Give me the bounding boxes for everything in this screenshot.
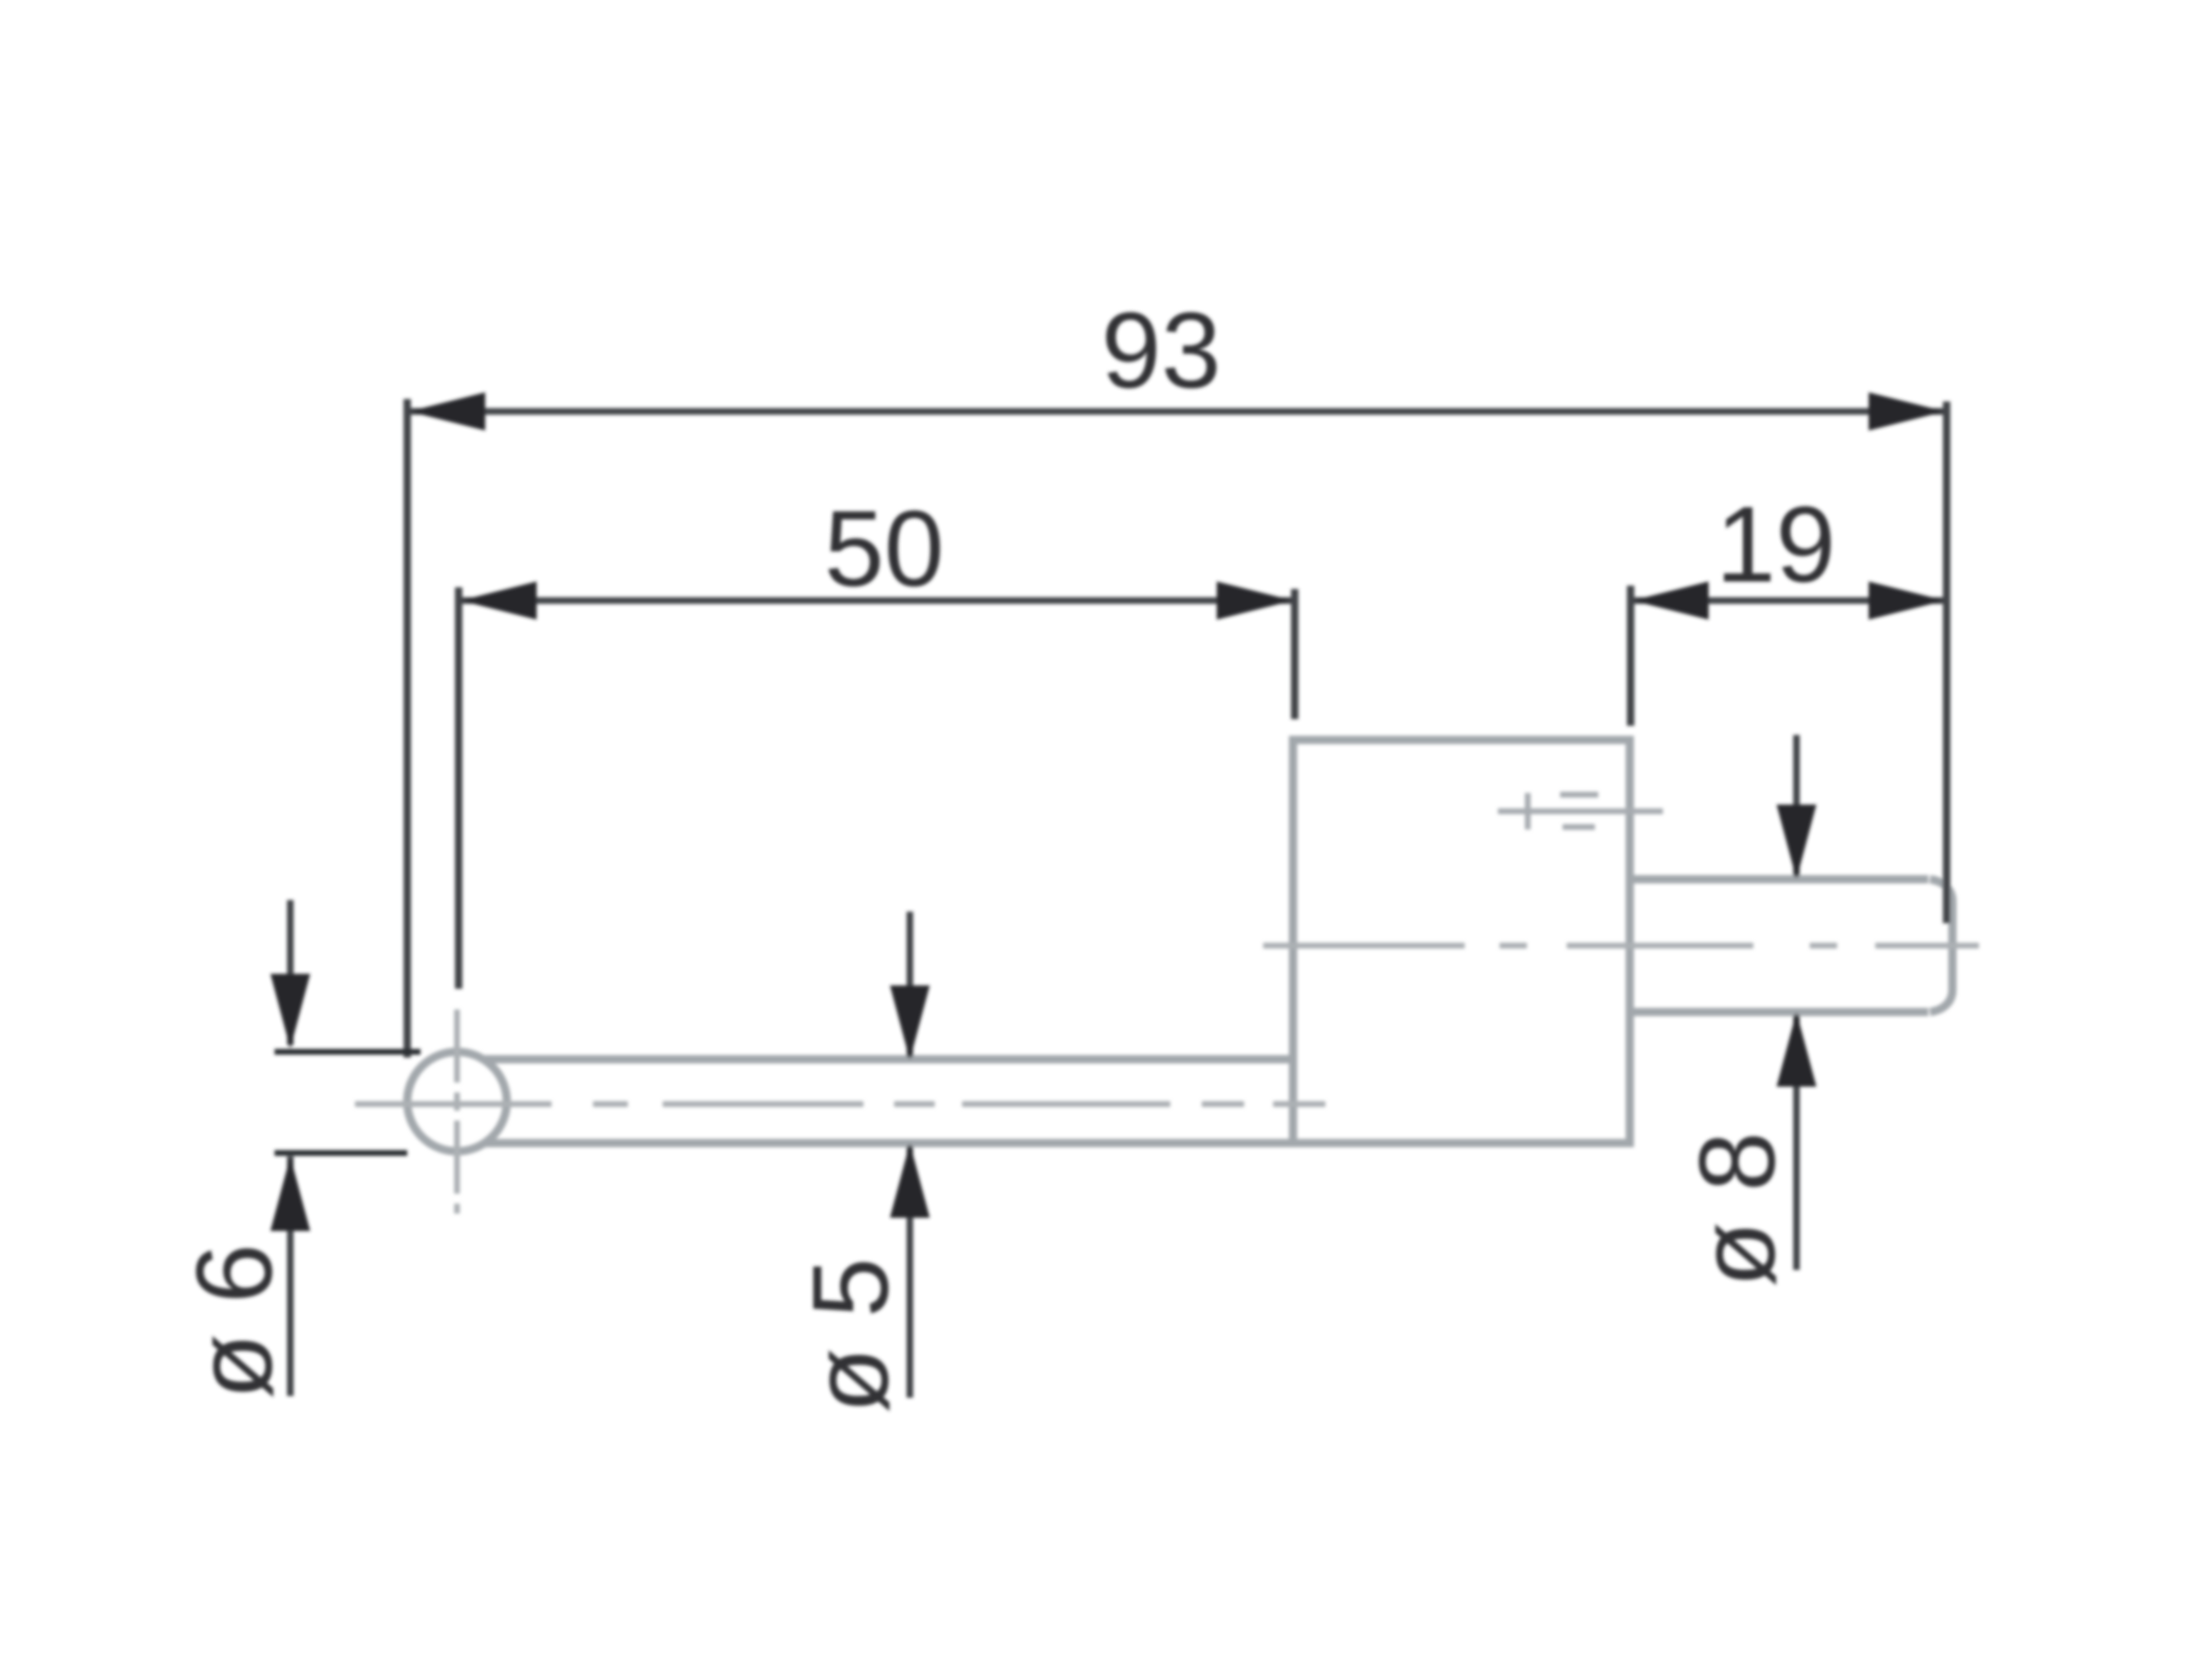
dimension 50: line — [459, 597, 1295, 604]
svg-text:ø 5: ø 5 — [790, 1258, 911, 1413]
svg-text:19: 19 — [1716, 484, 1836, 605]
mounting pin o8 with domed end (gray outline) — [1630, 879, 1952, 1012]
dimension 19: line — [1631, 597, 1947, 604]
dimension 50: right arrowhead — [1217, 581, 1293, 620]
dimension 93: line — [407, 408, 1947, 415]
dimension o6: upper leader line with down arrowhead — [287, 900, 294, 1045]
dimension o6: lower tick — [275, 1151, 407, 1156]
dimension 93: left extension line — [404, 399, 411, 1058]
svg-text:ø 6: ø 6 — [173, 1243, 294, 1399]
stylus rod o5 (gray outline) — [484, 1059, 1293, 1143]
dimension o6: upper tick — [275, 1049, 421, 1055]
svg-text:93: 93 — [1101, 289, 1222, 411]
dimension o5: lower leader line with up arrowhead — [907, 1146, 913, 1398]
rod centerline (dash-dot) — [355, 1102, 1325, 1107]
dimension 50: left extension line — [455, 587, 463, 989]
dimension 19: right arrowhead — [1869, 581, 1945, 620]
dimension o8: upper leader line with down arrowhead — [1793, 735, 1800, 876]
clamp mark symbol inside block — [1498, 793, 1663, 829]
dimension 93: left arrowhead — [409, 392, 485, 431]
dimension 93: right arrowhead — [1869, 392, 1945, 431]
ball vertical crosshair centerline — [455, 1010, 460, 1214]
body block (probe holder, gray outline) — [1293, 740, 1630, 1143]
dimension o8: lower leader line with up arrowhead — [1793, 1015, 1800, 1270]
dimension 93/19: right extension line — [1943, 401, 1951, 923]
dimension o6: lower leader line with up arrowhead — [287, 1156, 294, 1396]
svg-text:50: 50 — [824, 488, 945, 609]
dimension 50: left arrowhead — [460, 581, 537, 620]
dimension o5: upper leader line with down arrowhead — [907, 912, 913, 1057]
dimension 19: left extension line — [1627, 586, 1635, 726]
dimension 50: right extension line — [1291, 589, 1299, 719]
pin centerline (dash-dot) — [1263, 943, 1979, 949]
ball tip o6 (gray circle) — [407, 1052, 507, 1151]
dimension 19: left arrowhead — [1632, 581, 1709, 620]
svg-text:ø 8: ø 8 — [1676, 1131, 1797, 1287]
